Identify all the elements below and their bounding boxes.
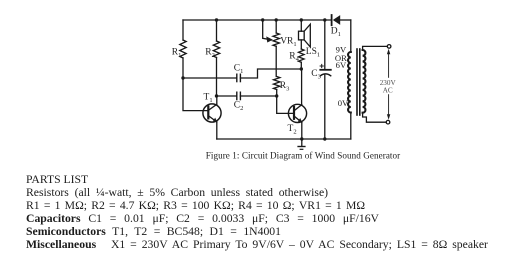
potentiometer VR1 [273,33,297,48]
VR1 wiper arrowhead [266,36,273,42]
diode D1 [331,15,341,38]
terminal top 230V [387,45,391,49]
wire VR1 wiper [263,20,268,39]
node speaker top [300,18,303,21]
node T2 emitter / ground [300,137,303,140]
ground [298,139,305,149]
node R4 bottom / C1 wire [300,67,303,70]
wire C3 top lead [324,20,326,69]
wire T2 emitter down [301,122,303,139]
wire T1 emitter down [216,122,218,139]
wire node down to T2 base [277,96,294,113]
wire R4 node down to T2 collector [301,69,303,105]
wire VR1 bottom to R3 top [275,46,277,76]
wire R2 top lead [216,20,218,41]
label 230V AC [380,78,397,95]
svg-text:R3: R3 [280,81,290,93]
wire node to C2 left plate [217,95,237,97]
svg-text:C1: C1 [234,64,244,76]
transformer core [356,49,358,115]
svg-text:T2: T2 [288,124,297,136]
parts list text block [26,173,488,252]
resistor R2 [205,41,219,59]
wire R1 bottom to node [182,58,184,78]
wire left rail lower to T1 base [183,78,208,111]
230V arrow line [387,49,390,120]
svg-text:R2: R2 [205,47,215,59]
wire primary bottom lead to rail [350,113,352,140]
node VR1 top [275,18,278,21]
wire top rail [183,19,331,21]
wire primary top lead [350,20,352,52]
resistor R1 [172,40,186,59]
node VR1 wiper on top rail [261,18,264,21]
svg-text:T1: T1 [204,93,213,105]
capacitor C2 [234,92,244,112]
svg-text:R1: R1 [172,48,182,60]
node R3 bottom / T2 base [275,94,278,97]
wire R2 bottom to collector node [216,58,218,97]
wire C3 bottom lead [324,75,326,140]
node R1/C1 junction [181,76,184,79]
wire secondary top lead [363,46,388,50]
wire node to C1 left plate [183,77,237,79]
speaker LS1 [299,24,321,59]
node R2 top [215,18,218,21]
node C3 bottom [323,137,326,140]
capacitor C3 [311,64,331,80]
wire VR1 top lead [275,20,277,33]
svg-text:R4: R4 [289,52,299,64]
svg-text:AC: AC [383,87,393,95]
terminal bottom 230V [386,120,390,124]
wire C2 right to R3 bottom node [240,95,276,97]
wire speaker to R4 [300,40,302,49]
transistor T1 [203,93,221,123]
transistor T2 [288,104,307,135]
svg-text:Figure 1: Circuit Diagram of W: Figure 1: Circuit Diagram of Wind Sound … [206,151,401,161]
resistor R4 [289,49,304,63]
wire left rail upper [182,20,184,40]
resistor R3 [274,77,290,93]
svg-text:0V: 0V [338,98,349,108]
wire secondary bottom lead [363,113,387,123]
node C3 top [323,18,326,21]
wire speaker top lead [300,20,302,31]
wire bottom rail [217,138,351,140]
transformer X1 [348,20,387,139]
label 9V OR 6V [335,45,347,70]
svg-text:LS1: LS1 [306,47,320,59]
transformer primary winding [348,52,351,113]
transformer secondary winding [363,50,366,113]
svg-text:6V: 6V [336,60,347,70]
wire C1 right to R4 bottom node [240,69,301,78]
wire R4 bottom lead [300,62,302,69]
wire R3 bottom lead [276,90,278,97]
capacitor C1 [234,64,244,82]
node R2/C2/T1 collector [215,94,218,97]
svg-text:C2: C2 [234,101,244,113]
wire top rail right of D1 [340,19,351,21]
svg-text:VR1: VR1 [280,37,296,49]
wire T1 collector [216,96,218,104]
svg-text:D1: D1 [331,27,341,39]
